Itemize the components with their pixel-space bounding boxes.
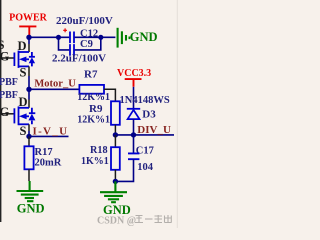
svg-text:S: S <box>20 66 27 80</box>
junction dot I-V_U <box>26 134 31 139</box>
resistor R17 body <box>24 146 33 169</box>
capacitor C12 plates <box>70 32 74 44</box>
pin R9 to DIV_U rail <box>114 125 116 135</box>
junction dot ground mid <box>113 179 118 184</box>
svg-text:Motor_U: Motor_U <box>34 78 76 89</box>
wire D3 anode to DIV_U rail <box>133 119 135 135</box>
pin R18 to ground junction <box>114 170 116 182</box>
svg-text:C17: C17 <box>136 146 154 157</box>
transistor Q1 symbol <box>14 51 35 68</box>
pin drain Q1 <box>28 44 30 52</box>
wire VCC3.3 to D3 cathode <box>133 87 135 109</box>
wire drain Q1 <box>28 37 30 44</box>
wire top rail right <box>75 36 116 38</box>
pin source Q1 <box>28 66 30 76</box>
svg-text:20mR: 20mR <box>35 157 62 168</box>
svg-text:GND: GND <box>17 202 45 216</box>
resistor R18 body <box>111 147 120 170</box>
svg-text:D3: D3 <box>142 108 156 120</box>
svg-text:1K%1: 1K%1 <box>81 156 109 167</box>
transistor Q2 symbol <box>14 106 35 125</box>
sheet left border <box>0 0 1 222</box>
svg-text:R18: R18 <box>90 145 108 156</box>
svg-text:POWER: POWER <box>9 13 48 24</box>
wire drain Q2 <box>28 89 30 99</box>
svg-text:VCC3.3: VCC3.3 <box>117 68 151 79</box>
power bar POWER <box>19 26 36 35</box>
junction dot D3/C17 <box>131 132 136 137</box>
svg-text:I-V_U: I-V_U <box>33 126 69 138</box>
wire source Q2 to I-V_U rail <box>28 131 30 136</box>
svg-text:C9: C9 <box>80 39 93 50</box>
resistor R7 body <box>79 85 104 94</box>
ground symbol top (bar style) <box>117 28 119 48</box>
junction dot Motor_U <box>26 87 31 92</box>
junction dot cap right <box>98 35 103 40</box>
diode D3 triangle <box>128 110 140 119</box>
ground symbol bottom-mid (earth) <box>100 181 127 202</box>
transistor Q1 body diode triangle <box>29 57 35 63</box>
svg-text:CSDN @: CSDN @ <box>97 215 136 226</box>
wire cap left branch <box>59 37 70 50</box>
transistor Q2 gate pin <box>0 113 14 115</box>
svg-text:R9: R9 <box>89 103 103 115</box>
svg-text:220uF/100V: 220uF/100V <box>56 15 113 27</box>
capacitor C17 plates <box>128 153 139 159</box>
svg-text:12K%1: 12K%1 <box>77 115 110 126</box>
diode D3 cathode bar <box>127 108 140 110</box>
ground symbol bottom-left (earth) <box>17 181 44 201</box>
wire Motor_U rail <box>29 88 79 90</box>
svg-text:GND: GND <box>130 30 158 44</box>
junction dot R9/R18 <box>113 132 118 137</box>
resistor R9 body <box>111 101 120 125</box>
svg-text:1N4148WS: 1N4148WS <box>120 95 170 106</box>
wire DIV_U rail <box>115 134 174 136</box>
transistor Q1 source arrow <box>19 57 26 63</box>
wire R7 to R9 <box>104 89 115 101</box>
pin DIV_U to R18 <box>114 135 116 147</box>
pin drain Q2 <box>28 100 30 108</box>
wire I-V_U stub <box>29 135 69 137</box>
svg-text:G: G <box>0 49 10 63</box>
svg-text:PBF: PBF <box>0 77 18 88</box>
transistor Q2 source arrow <box>19 113 27 119</box>
svg-text:12K%1: 12K%1 <box>77 92 110 103</box>
pin I-V_U to R17 <box>28 136 30 146</box>
capacitor C9 plates <box>70 44 74 56</box>
wire top rail left <box>29 36 69 38</box>
wire source Q1 to Motor_U rail <box>28 76 30 89</box>
wire DIV_U to C17 <box>133 135 135 153</box>
wire cap right branch <box>75 37 101 50</box>
sheet right faint border <box>177 0 178 228</box>
svg-text:2.2uF/100V: 2.2uF/100V <box>52 52 106 64</box>
pin source Q2 <box>28 124 30 131</box>
polarity + of C12 <box>63 28 67 32</box>
svg-text:G: G <box>0 105 10 119</box>
svg-text:PBF: PBF <box>0 90 18 101</box>
junction dot cap left <box>56 35 61 40</box>
svg-text:S: S <box>20 124 27 138</box>
svg-text:104: 104 <box>137 162 154 173</box>
svg-text:R7: R7 <box>84 68 98 80</box>
power bar VCC3.3 <box>125 79 142 87</box>
junction dot power column <box>26 35 31 40</box>
transistor Q2 body diode triangle <box>28 114 35 121</box>
watermark CJK glyph boxes <box>135 215 172 223</box>
transistor Q1 gate pin <box>0 57 14 59</box>
wire C17 to ground junction <box>115 159 133 181</box>
svg-text:DIV_U: DIV_U <box>137 124 171 136</box>
pin R17 to ground <box>28 169 30 181</box>
